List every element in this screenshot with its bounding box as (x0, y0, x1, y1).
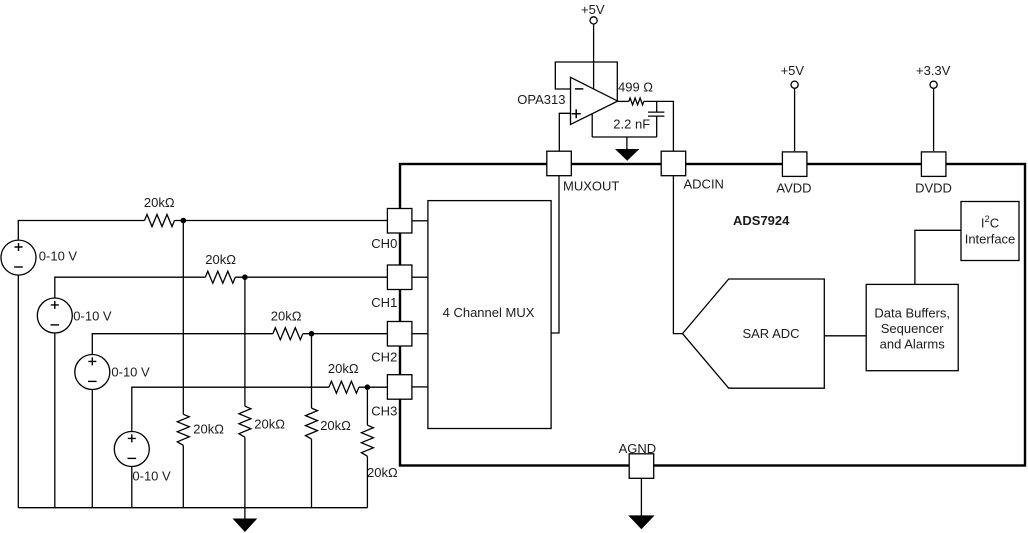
wire CH1 pin to MUX (412, 276, 428, 278)
svg-text:20kΩ: 20kΩ (367, 465, 398, 480)
wire R2 to CH1 (235, 276, 387, 278)
svg-text:AGND: AGND (619, 441, 657, 456)
AGND ground (640, 478, 642, 516)
wire V3 bottom (91, 390, 93, 508)
wire CH0 pin to MUX (412, 220, 428, 222)
pin AGND (629, 454, 654, 479)
op-amp feedback loop (555, 62, 617, 101)
wire Data Buffers to I2C Interface (915, 230, 961, 284)
wire op-amp output (618, 100, 629, 102)
resistor R7 20k column 3 (306, 408, 318, 439)
svg-text:ADCIN: ADCIN (684, 177, 724, 192)
svg-text:CH2: CH2 (371, 350, 397, 365)
wire op-amp + input to MUXOUT pin (559, 113, 570, 151)
wire V4 bottom (131, 467, 133, 508)
op-amp minus input sign (575, 88, 583, 90)
svg-text:+3.3V: +3.3V (916, 63, 951, 78)
svg-text:Sequencer: Sequencer (881, 321, 945, 336)
AVDD +5V terminal (794, 88, 796, 151)
op-amp V- stem (591, 114, 593, 137)
svg-text:20kΩ: 20kΩ (144, 195, 175, 210)
wire V1 bottom (17, 275, 19, 508)
resistor R1 20k row CH0 (145, 215, 175, 227)
svg-text:DVDD: DVDD (915, 180, 952, 195)
wire ground bus (18, 507, 367, 509)
wire column 4 lower (366, 456, 368, 508)
I2C Interface block (961, 202, 1019, 261)
voltage source V1 0-10V (1, 240, 36, 275)
node CH0 junction (181, 218, 187, 224)
svg-text:CH3: CH3 (371, 404, 397, 419)
node CH1 junction (242, 274, 248, 280)
svg-text:0-10 V: 0-10 V (111, 365, 150, 380)
svg-text:20kΩ: 20kΩ (205, 252, 236, 267)
pin ADCIN (661, 151, 686, 176)
svg-text:Data Buffers,: Data Buffers, (874, 306, 950, 321)
svg-text:OPA313: OPA313 (517, 92, 565, 107)
wire CH2 pin to MUX (412, 333, 428, 335)
svg-text:MUXOUT: MUXOUT (563, 179, 619, 194)
resistor R3 20k row CH2 (273, 328, 303, 340)
svg-text:0-10 V: 0-10 V (132, 469, 171, 484)
wire ADCIN pin to SAR ADC (673, 176, 682, 334)
wire column 1 upper (182, 221, 184, 415)
wire resistor to ADCIN pin (644, 101, 674, 151)
Data Buffers, Sequencer and Alarms block (866, 284, 958, 370)
svg-text:+5V: +5V (781, 63, 805, 78)
wire SAR ADC to Data Buffers (824, 335, 866, 337)
wire V3 riser (92, 334, 272, 355)
voltage source V3 0-10V (75, 355, 110, 390)
resistor R5 20k column 1 (177, 414, 189, 445)
svg-text:20kΩ: 20kΩ (328, 361, 359, 376)
svg-text:499 Ω: 499 Ω (618, 79, 653, 94)
svg-text:20kΩ: 20kΩ (193, 422, 224, 437)
resistor R6 20k column 2 (239, 406, 251, 437)
node CH3 junction (365, 384, 371, 390)
wire V4 riser (132, 387, 329, 431)
svg-text:and Alarms: and Alarms (880, 337, 946, 352)
voltage source V2 0-10V (37, 298, 72, 333)
svg-text:2.2 nF: 2.2 nF (613, 117, 650, 132)
wire MUXOUT pin to MUX block (551, 176, 559, 333)
svg-text:I2C: I2C (981, 214, 999, 231)
op-amp plus input sign (572, 109, 581, 118)
svg-text:ADS7924: ADS7924 (733, 213, 790, 228)
wire R4 to CH3 (359, 386, 388, 388)
pin CH3 (387, 375, 412, 400)
op-amp U1 OPA313 (571, 77, 618, 124)
ground (bus) (244, 508, 246, 519)
wire column 2 upper (244, 277, 246, 406)
voltage source V4 0-10V (114, 432, 149, 467)
pin CH2 (387, 322, 412, 347)
node CH2 junction (309, 331, 315, 337)
svg-text:0-10 V: 0-10 V (73, 308, 112, 323)
SAR ADC block (683, 279, 825, 388)
wire V1 riser (18, 221, 144, 241)
wire CH3 pin to MUX (412, 386, 428, 388)
svg-text:20kΩ: 20kΩ (320, 418, 351, 433)
ground (op-amp rail) (626, 137, 628, 150)
ADS7924 chip outline (400, 164, 1025, 466)
resistor 499 ohm (629, 98, 644, 105)
pin AVDD (782, 152, 807, 177)
pin CH0 (387, 209, 412, 234)
svg-text:CH1: CH1 (371, 295, 397, 310)
svg-text:4 Channel MUX: 4 Channel MUX (443, 305, 535, 320)
capacitor C1 2.2 nF (648, 101, 664, 137)
svg-text:+5V: +5V (581, 2, 605, 17)
wire +5V to op-amp V+ (593, 24, 595, 89)
resistor R2 20k row CH1 (205, 271, 235, 283)
wire R3 to CH2 (303, 333, 388, 335)
svg-text:CH0: CH0 (371, 236, 397, 251)
wire V2 bottom (54, 333, 56, 508)
svg-text:Interface: Interface (965, 232, 1016, 247)
pin DVDD (921, 152, 946, 177)
pin CH1 (387, 265, 412, 290)
wire column 4 upper (366, 387, 368, 425)
wire column 3 upper (311, 334, 313, 408)
svg-text:20kΩ: 20kΩ (271, 309, 302, 324)
ground rail under op-amp (592, 136, 657, 138)
svg-text:20kΩ: 20kΩ (254, 416, 285, 431)
svg-text:AVDD: AVDD (776, 180, 811, 195)
wire column 3 lower (311, 439, 313, 508)
wire column 1 lower (182, 445, 184, 507)
svg-text:SAR ADC: SAR ADC (742, 326, 799, 341)
wire column 2 lower (244, 437, 246, 508)
svg-text:0-10 V: 0-10 V (39, 249, 78, 264)
pin MUXOUT (547, 151, 572, 176)
resistor R8 20k column 4 (361, 425, 373, 456)
wire V2 riser (55, 277, 206, 298)
resistor R4 20k row CH3 (329, 381, 359, 393)
DVDD +3.3V terminal (933, 88, 935, 151)
wire R1 to CH0 (175, 220, 388, 222)
4 Channel MUX block (428, 201, 551, 429)
